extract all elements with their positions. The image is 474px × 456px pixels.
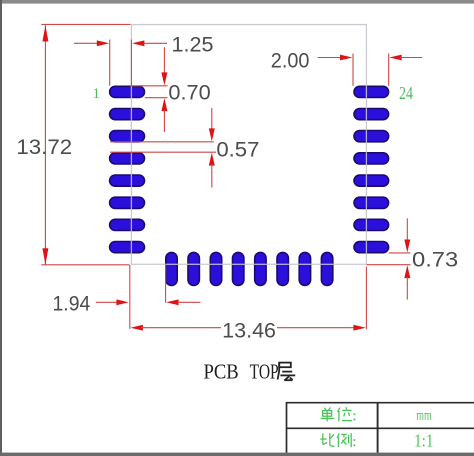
svg-text:13.72: 13.72 [16,136,72,159]
pad 8 [110,242,145,253]
dimension 0.57 lower arrow line [211,164,213,188]
dimension 1.25 left extension tick [109,40,111,86]
table left border [286,402,288,453]
pad 12 [233,252,244,285]
colon [353,413,355,415]
pad 17 (right column bottom) [354,242,389,253]
svg-text:24: 24 [399,83,413,103]
table text danwei (单位:) [321,407,355,421]
dimension 1.94 right tail [177,301,201,303]
window left bar [0,0,2,456]
dimension 2.00 left tail [318,57,342,59]
table top border [286,402,474,404]
table row divider [286,427,474,429]
dimension 2.00 left extension line [352,54,354,86]
单 [324,408,326,411]
dimension 13.46 left segment [141,327,221,329]
svg-text:1: 1 [93,86,101,102]
svg-text:0.73: 0.73 [412,248,458,271]
比 [322,433,324,444]
dimension 1.25 right tail [144,42,167,44]
pad 15 [299,252,310,285]
dimension 0.73 upper arrow [404,240,410,253]
dimension 13.46 right arrow [353,325,365,331]
dimension 0.70 bottom extension line [145,97,168,99]
pad 19 [354,197,389,208]
pad 7 [110,219,145,230]
pad 10 [188,252,199,285]
dimension 0.73 bottom extension line [367,264,411,266]
dimension 0.70 lower arrow line [163,110,165,132]
window top bar [0,0,474,4]
pad 24 (right column top) [354,86,389,97]
dimension 13.46 left arrow [131,325,143,331]
dimension 1.94 left arrow [116,299,128,305]
shared extension line (body left, 1.94 and 13.46) [129,265,131,329]
table middle vertical border [377,402,379,453]
pad 18 [354,219,389,230]
table text bili (比例:) [320,433,354,447]
svg-text:1.94: 1.94 [53,292,91,315]
pad 9 (bottom row) [166,252,177,285]
svg-text:2.00: 2.00 [271,49,310,72]
title hanzi ceng (drawn) [278,363,296,381]
pad 3 [110,131,145,142]
dimension 0.73 lower arrow [404,265,410,278]
svg-text:1.25: 1.25 [172,33,214,56]
位 [338,408,340,412]
pad 14 [277,252,288,285]
dimension 1.25 right extension tick [130,40,132,86]
pad 1 (left column) [110,86,145,97]
dimension 1.94 right arrow [166,299,178,305]
dimension 13.72 top arrow [42,25,48,41]
red extension line top (body top to 13.72 dim) [41,23,130,25]
dimension 0.70 upper arrow line [163,47,165,74]
dimension 1.94 left tail [96,301,118,303]
pad 21 [354,153,389,164]
pad 6 [110,197,145,208]
pad 13 [255,252,266,285]
dimension 0.73 top extension line [389,252,411,254]
dimension 0.73 lower arrow line [406,277,408,300]
dimension 0.57 upper arrow line [211,108,213,130]
pad 22 [354,131,389,142]
dimension 0.57 upper arrow [209,128,215,141]
dimension 0.57 top extension line [110,141,214,143]
dimension 0.70 upper arrow [161,72,167,85]
dimension 1.25 right arrow [132,40,144,46]
pad 5 [110,175,145,186]
dimension 0.70 lower arrow [161,98,167,111]
dimension 13.72 bottom arrow [42,248,48,264]
pad 20 [354,175,389,186]
pad 2 [110,109,145,120]
dimension 13.72 line [44,25,46,264]
svg-text:1:1: 1:1 [414,431,434,451]
svg-text:0.57: 0.57 [216,138,259,161]
svg-text:TOP: TOP [250,360,279,384]
例 [337,433,339,437]
dimension 0.70 top extension line [132,85,168,87]
dimension 13.46 right segment [277,327,356,329]
dimension 0.57 lower arrow [209,153,215,166]
red extension line bottom (body bottom to 13.72 dim) [41,264,129,266]
pad 11 [210,252,221,285]
dimension 13.46 right extension line [365,267,367,330]
component body outline [131,25,366,265]
dimension 2.00 right extension line [388,54,390,86]
svg-text:mm: mm [416,409,432,424]
pad 4 [110,153,145,164]
dimension 0.57 bottom extension line [110,151,216,153]
pad 23 [354,109,389,120]
dimension 1.25 left tail [74,42,98,44]
svg-text:PCB: PCB [204,360,239,384]
dimension 1.25 left arrow [97,40,109,46]
svg-text:13.46: 13.46 [222,320,276,343]
colon [353,439,355,441]
dimension 2.00 right arrow [389,55,401,61]
svg-text:0.70: 0.70 [168,82,210,105]
pad 16 [321,252,332,285]
dimension 2.00 right tail [400,57,422,59]
window bottom bar [0,453,474,456]
dimension 0.73 upper arrow line [406,218,408,241]
dimension 2.00 left arrow [340,55,352,61]
dimension 1.94 right extension line [165,265,167,303]
